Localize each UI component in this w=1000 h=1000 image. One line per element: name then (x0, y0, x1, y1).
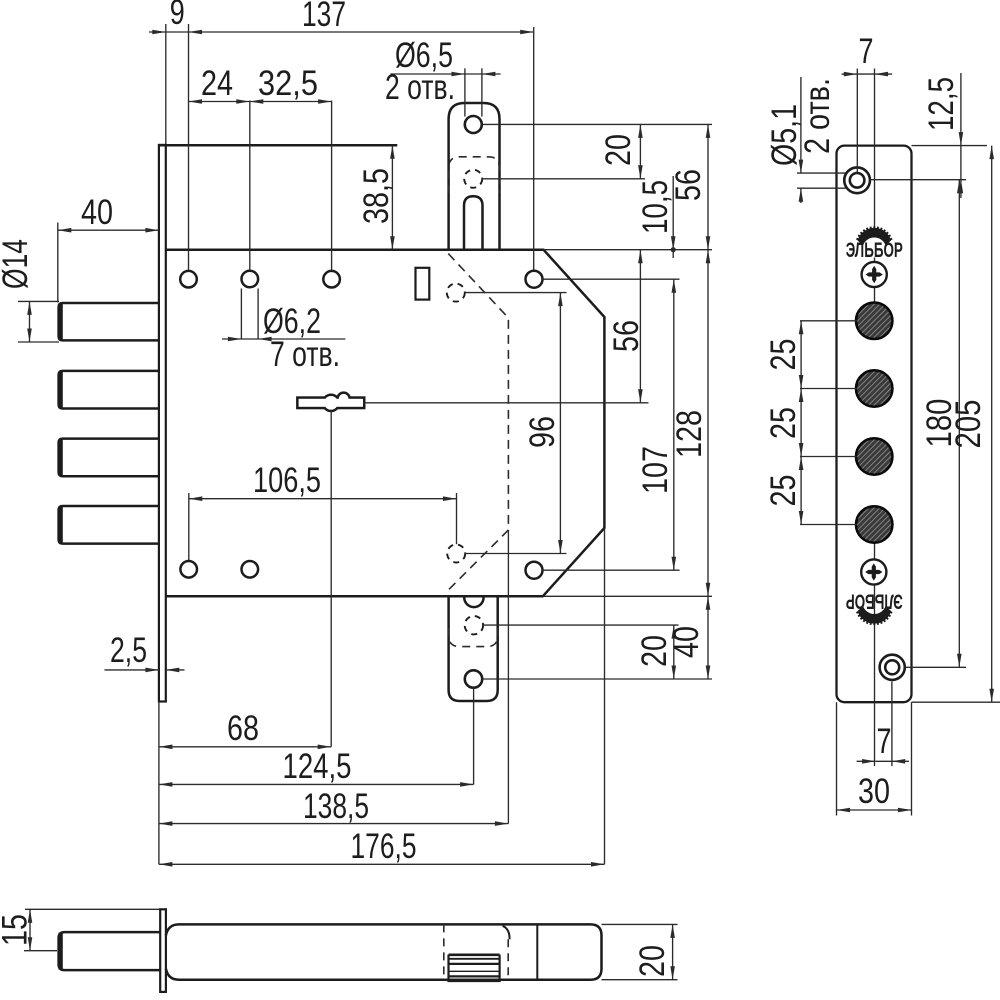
svg-text:128: 128 (670, 410, 709, 458)
body hole top-right (323, 271, 340, 288)
dimension Z6,2 7 holes (222, 338, 241, 340)
body hole top-middle (242, 271, 259, 288)
svg-text:ЭЛЬБОР: ЭЛЬБОР (846, 238, 903, 262)
dimension 20 lower right (673, 625, 675, 679)
extension lines Z5.1 left (797, 172, 846, 174)
extension line upper hidden hole right (482, 178, 645, 180)
extension line hole lower-left up (188, 493, 190, 560)
dimension Z14 (29, 301, 31, 342)
extension line bottom screw hole right (905, 666, 967, 668)
extension line bolt1 top left (18, 300, 59, 302)
extension line hidden hole lower up (456, 493, 458, 544)
lock body outline (166, 250, 604, 597)
extension line upper tab hole right (482, 123, 712, 125)
svg-text:176,5: 176,5 (351, 827, 417, 866)
face plate outline (front view) (837, 146, 912, 703)
extension line Z6.2 left (240, 289, 242, 340)
lower tab hidden pocket (dashed) (449, 628, 498, 647)
extension line top screw hole down (856, 69, 858, 173)
upper cover plate top edge (159, 144, 397, 147)
svg-text:138,5: 138,5 (303, 787, 369, 826)
bolt hole 1 (hatched) (856, 303, 892, 339)
svg-text:137: 137 (302, 0, 346, 34)
lock body (bottom view) (166, 924, 602, 979)
dimension 205 (991, 146, 993, 703)
dimension 20 (bottom view) (672, 924, 674, 979)
extension line bolt axis (bottom view) (24, 950, 57, 952)
key cylinder symbol (299, 394, 363, 410)
svg-text:2 отв.: 2 отв. (798, 78, 837, 154)
svg-text:ЭЛЬБОР: ЭЛЬБОР (846, 590, 903, 614)
dimension 10,5 (672, 176, 674, 258)
body hidden hole upper (dashed) (447, 284, 465, 302)
svg-text:Ø14: Ø14 (0, 239, 35, 289)
dimension 25 (2) (800, 389, 802, 457)
deadbolt 3 (59, 439, 159, 477)
body divider line (bottom view) (536, 924, 538, 979)
extension line hidden hole upper right (465, 292, 567, 294)
logo lower (ELBOR, rotated) (846, 590, 903, 626)
bolt hole 4 (hatched) (856, 506, 892, 542)
extension line hole top-left up (188, 24, 190, 270)
lower mounting tab (449, 596, 498, 701)
extension line plate left edge down (836, 702, 838, 815)
bolt (bottom view) (59, 932, 161, 970)
dimension 106,5 (189, 498, 457, 500)
dimension 7 top (842, 73, 858, 75)
extension line faceplate top-left (bottom view) (25, 908, 160, 910)
dimension 56 middle (639, 250, 641, 403)
svg-text:30: 30 (858, 772, 890, 811)
extension line faceplate right top (165, 24, 167, 144)
face plate center axis line (874, 69, 876, 229)
svg-text:2,5: 2,5 (110, 631, 147, 670)
dimension 20 upper right (639, 124, 641, 178)
bolt hole 2 (hatched) (856, 370, 892, 406)
dimension 38,5 (391, 145, 393, 249)
extension line bottom screw hole down (891, 682, 893, 767)
dimension 15 (29, 909, 31, 950)
upper tab hidden pocket (dashed) (449, 157, 500, 193)
extension line Z6.2 right (257, 289, 259, 340)
body hole lower-middle (242, 561, 259, 578)
svg-text:7: 7 (859, 32, 874, 71)
faceplate (bottom view) (160, 909, 166, 992)
bolt hole 3 (hatched) (856, 438, 892, 474)
cylinder vertical extension (330, 410, 332, 747)
svg-text:205: 205 (949, 400, 988, 449)
extension line plate center down (874, 702, 876, 766)
extension lines 25-dims left (800, 320, 857, 322)
svg-text:25: 25 (764, 475, 803, 507)
dimension 137 (189, 31, 534, 33)
faceplate (lock front plate, side view) (159, 145, 166, 702)
dimension 176,5 (159, 863, 605, 865)
extension line hidden hole lower right (465, 553, 566, 555)
upper tab hidden hole (dashed) (464, 170, 482, 188)
upper tab hole Z6.5 (465, 116, 482, 133)
svg-text:40: 40 (81, 193, 113, 232)
dimension 9 (149, 31, 189, 33)
dimension 32,5 (250, 101, 332, 103)
dimension 25 (1) (800, 321, 802, 389)
phillips screw lower (861, 559, 886, 584)
dimension 30 (837, 809, 912, 811)
extension line dashed profile down (507, 530, 509, 824)
extension line hole top-right up (331, 101, 333, 270)
arc detail (bottom view) (503, 926, 510, 939)
svg-text:25: 25 (764, 407, 803, 439)
svg-text:20: 20 (599, 134, 638, 166)
bolt guide block (bottom view) (449, 955, 500, 981)
extension line hole upper-right right (543, 278, 680, 280)
extension line bolt1 bottom left (18, 341, 59, 343)
hidden body profile (dashed) (448, 254, 508, 590)
extension line plate right edge down (911, 702, 913, 815)
upper tab slot (464, 196, 483, 249)
dimension 12,5 (960, 73, 962, 146)
svg-text:7: 7 (877, 722, 892, 761)
deadbolt 2 (59, 371, 159, 409)
body hole top-left (180, 271, 197, 288)
lower tab slot end (semicircle) (464, 597, 483, 607)
logo upper (ELBOR) (846, 226, 903, 261)
extension line lower tab hole down (473, 688, 475, 785)
svg-text:96: 96 (523, 416, 562, 448)
svg-text:40: 40 (667, 626, 706, 658)
top screw hole (Z5.1) (844, 167, 870, 193)
svg-text:2 отв.: 2 отв. (385, 68, 455, 107)
plate bottom edge extension right (912, 701, 1000, 703)
bottom screw hole (Z5.1) (880, 655, 905, 680)
cylinder axis line (363, 402, 649, 404)
extension line hole top-middle up (249, 101, 251, 270)
hidden lines (bottom view, dashed) (443, 924, 445, 979)
svg-text:32,5: 32,5 (258, 64, 318, 103)
svg-text:38,5: 38,5 (357, 168, 396, 224)
extension line faceplate left down (158, 702, 160, 865)
dimension 96 (559, 293, 561, 554)
svg-text:24: 24 (201, 64, 233, 103)
body hole lower-left (180, 561, 197, 578)
extension line Z6.5 right (481, 68, 483, 116)
dimension 25 (3) (800, 457, 802, 525)
extension line plate top right (912, 145, 988, 147)
svg-text:56: 56 (607, 320, 646, 352)
body top edge extension right (544, 249, 713, 251)
svg-text:25: 25 (764, 339, 803, 371)
dimension 124,5 (159, 783, 474, 785)
dimension 7 bottom (857, 760, 876, 762)
lower tab hole Z6.5 (465, 670, 482, 687)
extension line lower tab hole right (482, 678, 712, 680)
screw slot rectangle in body (416, 268, 430, 300)
extension line bolt1 left up (57, 223, 59, 303)
dimension 107 (673, 279, 675, 570)
dimension 40 (bolt length) (58, 229, 159, 231)
body hole upper-right (526, 271, 543, 288)
extension lines 20 (bottom view) (602, 923, 678, 925)
deadbolt 1 (59, 303, 159, 340)
body bottom edge extension right (543, 595, 712, 597)
extension line body right edge down (604, 528, 606, 864)
dimension 180 (958, 180, 960, 668)
dimension Z6,5 2 holes (390, 73, 465, 75)
dimension 56 upper right (707, 124, 709, 249)
svg-text:12,5: 12,5 (922, 77, 961, 131)
svg-text:106,5: 106,5 (253, 461, 321, 500)
body hidden hole lower (dashed) (447, 545, 465, 563)
dimension 128 (707, 250, 709, 597)
dimension 68 (159, 746, 331, 748)
extension line hole lower-right right (543, 569, 680, 571)
svg-text:10,5: 10,5 (636, 180, 675, 234)
upper mounting tab (449, 103, 500, 250)
svg-text:7 отв.: 7 отв. (270, 335, 340, 374)
dimension Z5,1 2 holes (800, 77, 802, 173)
dimension 2,5 (105, 669, 159, 671)
svg-text:9: 9 (170, 0, 185, 32)
svg-text:20: 20 (633, 945, 672, 977)
extension line Z6.5 left (464, 68, 466, 116)
phillips screw upper (862, 262, 887, 287)
svg-text:124,5: 124,5 (283, 747, 352, 786)
deadbolt 4 (59, 506, 159, 544)
extension line lower hidden hole right (483, 624, 678, 626)
lower tab hidden hole (dashed) (465, 616, 483, 634)
extension line top screw hole right (870, 179, 966, 181)
dimension 40 lower right (707, 596, 709, 679)
svg-text:15: 15 (0, 914, 35, 946)
dimension 138,5 (159, 823, 509, 825)
body hole lower-right (526, 562, 543, 579)
extension line hole upper-right up (533, 27, 535, 270)
svg-text:68: 68 (227, 709, 259, 748)
dimension 24 (189, 101, 250, 103)
